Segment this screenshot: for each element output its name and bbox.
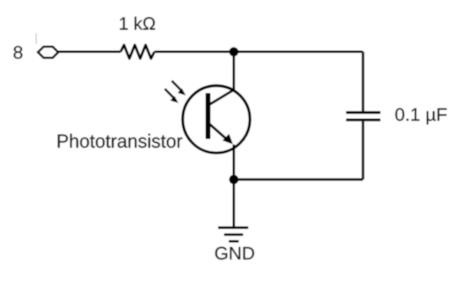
phototransistor emitter arrowhead — [223, 134, 233, 144]
pin connector hexagon — [38, 47, 58, 58]
wire: resistor to right vertical — [154, 51, 363, 54]
ground bar 2 — [224, 233, 243, 236]
wire: emitter to bottom junction — [233, 145, 236, 180]
phototransistor emitter line — [209, 124, 229, 141]
label 0.1 µF — [395, 108, 446, 124]
wire: connector to resistor — [58, 51, 120, 54]
wire: right vertical top segment — [362, 52, 365, 111]
ground bar 3 — [229, 240, 239, 243]
label GND — [215, 247, 254, 260]
wire: right vertical bottom segment — [362, 121, 365, 179]
ground bar 1 — [218, 226, 248, 229]
pin label 8 — [14, 46, 23, 59]
phototransistor collector line — [209, 90, 234, 105]
wire: bottom junction to right vertical — [234, 178, 363, 181]
wire: top junction down to phototransistor collector — [233, 52, 236, 90]
light arrow upper — [172, 81, 181, 90]
faint artifact line above connector — [35, 33, 37, 44]
capacitor C1 top plate — [346, 111, 381, 114]
node: top junction — [229, 47, 238, 56]
phototransistor base bar — [206, 93, 211, 139]
node: bottom junction — [229, 175, 238, 184]
phototransistor Q1 body circle — [183, 86, 250, 153]
label 1 kΩ — [120, 17, 155, 30]
wire: ground stem — [233, 180, 236, 228]
capacitor C1 bottom plate — [346, 119, 381, 122]
resistor R1 1 kΩ — [121, 45, 155, 59]
label Phototransistor — [58, 134, 182, 148]
light arrow lower — [165, 89, 174, 98]
